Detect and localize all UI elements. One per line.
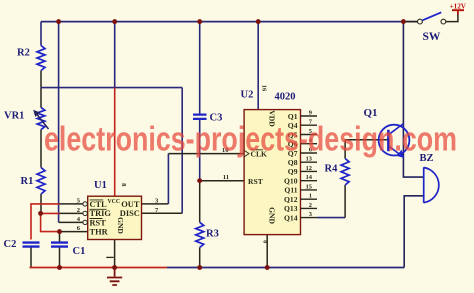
U2 output pin names xyxy=(284,112,298,223)
wire ground rail blue segment xyxy=(167,267,404,269)
svg-text:14: 14 xyxy=(306,174,313,181)
resistor R1 xyxy=(37,168,45,195)
U1 pin bubbles CTL TRIG RST xyxy=(83,202,87,206)
wire +12V top rail xyxy=(41,21,418,23)
svg-text:Q1: Q1 xyxy=(364,107,378,119)
wire R4 bottom lead xyxy=(344,185,346,218)
svg-text:Q14: Q14 xyxy=(284,213,298,222)
wire C3 bottom to U2 RST node xyxy=(199,120,201,181)
node ground rail / U1 GND junction xyxy=(112,265,117,270)
resistor R2 xyxy=(37,46,45,71)
wire U1 DISC pin 7 horizontal xyxy=(142,212,183,214)
wire OUT to CLK: vertical riser xyxy=(167,154,169,204)
capacitor C3 xyxy=(193,115,207,119)
svg-text:electronics-projects-design.co: electronics-projects-design.com xyxy=(44,121,457,159)
svg-text:U2: U2 xyxy=(241,90,254,101)
svg-text:R1: R1 xyxy=(21,176,34,187)
node +12V rail / U2 VDD junction xyxy=(256,19,261,24)
svg-text:9: 9 xyxy=(309,109,312,116)
wire C1 top lead from THR node xyxy=(59,232,61,242)
node +12V rail / C3 junction xyxy=(197,19,202,24)
U1 pin numbers xyxy=(77,198,81,233)
U2 right pin numbers xyxy=(306,109,313,218)
svg-text:R2: R2 xyxy=(17,48,30,59)
wire node A to VR1 top xyxy=(40,88,42,108)
wire SW left segment xyxy=(403,21,417,23)
wire U2 RST node down to R3 xyxy=(199,181,201,223)
svg-text:Q8: Q8 xyxy=(288,158,298,167)
svg-text:Q1: Q1 xyxy=(288,112,298,121)
svg-text:12: 12 xyxy=(306,165,312,172)
svg-text:Q11: Q11 xyxy=(284,186,297,195)
svg-text:SW: SW xyxy=(423,31,441,43)
svg-text:2: 2 xyxy=(309,202,312,209)
wire R4 to Q1 base xyxy=(345,139,387,141)
U2 CLK pin name with clock triangle xyxy=(244,150,249,157)
wire U1 VCC drop upper (blue) xyxy=(114,22,116,88)
svg-text:RST: RST xyxy=(248,177,263,186)
U1 pin names xyxy=(90,199,140,237)
svg-text:OUT: OUT xyxy=(121,200,140,209)
svg-text:U1: U1 xyxy=(94,180,107,191)
wire U1 GND drop xyxy=(114,240,116,268)
wire U1 VCC drop lower (red) xyxy=(114,88,116,197)
U2 right pin stubs Q1-Q14 xyxy=(301,116,318,218)
node +12V rail / U1 RST junction xyxy=(56,19,61,24)
wire U1 THR black segment xyxy=(60,231,88,233)
svg-text:8: 8 xyxy=(262,240,269,243)
ground xyxy=(107,268,122,286)
wire C3 branch from top rail xyxy=(199,22,201,115)
svg-text:GND: GND xyxy=(268,207,277,224)
wire ground rail red segment xyxy=(30,267,168,269)
wire U1 CTL black segment xyxy=(60,203,83,205)
+12V power port xyxy=(452,10,464,14)
resistor R3 xyxy=(196,222,204,247)
buzzer BZ xyxy=(424,167,439,203)
U1 pin name overbars xyxy=(90,200,107,219)
wire R1 bottom to TRIG node xyxy=(40,194,42,213)
U1 pin 1 rotated label xyxy=(106,256,113,258)
wire OUT to CLK: horizontal into U2 CLK pin 10 xyxy=(168,153,244,155)
svg-text:R3: R3 xyxy=(206,229,219,240)
wire U1 TRIG black segment xyxy=(60,212,83,214)
node C3 / U2 RST / R3 junction xyxy=(197,178,202,183)
potentiometer VR1 xyxy=(37,108,45,130)
svg-text:1: 1 xyxy=(309,193,312,200)
svg-text:+12V: +12V xyxy=(450,2,467,10)
capacitor C2 xyxy=(23,243,40,247)
wire U2 GND drop xyxy=(266,235,268,268)
wire C2 bottom lead to ground rail xyxy=(30,247,32,268)
svg-text:THR: THR xyxy=(90,228,109,237)
svg-text:Q10: Q10 xyxy=(284,177,298,186)
wire DISC net vertical down to U1 DISC xyxy=(181,88,183,214)
wire U1 TRIG red segment xyxy=(41,212,60,214)
switch SW contacts xyxy=(418,19,423,24)
node +12V rail / Q1 collector junction xyxy=(401,19,406,24)
svg-text:RST: RST xyxy=(90,218,107,227)
svg-text:4020: 4020 xyxy=(275,92,296,103)
svg-text:VCC: VCC xyxy=(108,199,121,205)
svg-text:CTL: CTL xyxy=(90,200,108,209)
wire BZ bottom lead to ground rail xyxy=(404,196,424,268)
U2 4020 counter body xyxy=(244,110,300,235)
wire R4 top lead xyxy=(344,140,346,159)
wire R2 bottom to node A xyxy=(40,71,42,88)
wire OUT to CLK: horizontal from U1 OUT xyxy=(142,203,169,205)
svg-text:C1: C1 xyxy=(73,246,86,257)
op-amp U1 555 timer body xyxy=(88,196,142,239)
svg-text:Q13: Q13 xyxy=(284,204,298,213)
wire U2 VDD drop xyxy=(257,22,259,110)
svg-text:Q12: Q12 xyxy=(284,195,298,204)
switch SW lever xyxy=(423,12,442,20)
wire TRIG-THR red link xyxy=(41,213,60,231)
wire U1 RST horizontal black segment xyxy=(59,221,83,223)
wire collector-emitter column from top rail to BZ xyxy=(403,22,423,178)
svg-text:15: 15 xyxy=(306,183,312,190)
wire U1 CTL red segment to C2 xyxy=(31,204,60,240)
node U1 THR / C1 junction xyxy=(57,229,62,234)
capacitor C1 xyxy=(51,243,68,247)
svg-text:Q9: Q9 xyxy=(288,167,298,176)
wire R3 bottom to ground rail xyxy=(199,247,201,267)
svg-text:11: 11 xyxy=(223,174,229,181)
wire U2 Q14 pin 3 to R4 xyxy=(317,217,345,219)
svg-text:3: 3 xyxy=(309,211,312,218)
wire U1 RST pull-up vertical xyxy=(58,22,60,223)
node R1 / U1 TRIG junction xyxy=(38,211,43,216)
svg-text:C2: C2 xyxy=(4,239,17,250)
node ground rail / C1 junction xyxy=(57,265,62,270)
node ground rail / U2 GND junction xyxy=(265,265,270,270)
wire C1 bottom lead to ground rail xyxy=(59,248,61,268)
node ground rail / R3 junction xyxy=(197,265,202,270)
wire VR1 bottom to R1 top xyxy=(40,130,42,168)
svg-text:16: 16 xyxy=(260,85,267,92)
svg-text:VR1: VR1 xyxy=(4,111,24,122)
transistor Q1 xyxy=(379,125,410,156)
wire DISC net horizontal from node A xyxy=(41,87,182,89)
wire SW right segment to +12V xyxy=(446,15,458,22)
wire U2 RST pin 11 horizontal xyxy=(200,180,244,182)
wire left branch from top rail to R2 xyxy=(40,22,42,46)
svg-text:R4: R4 xyxy=(325,164,339,175)
node +12V rail / U1 VCC junction xyxy=(112,19,117,24)
svg-text:GND: GND xyxy=(116,217,125,234)
svg-text:TRIG: TRIG xyxy=(90,209,112,218)
resistor R4 xyxy=(341,159,349,186)
